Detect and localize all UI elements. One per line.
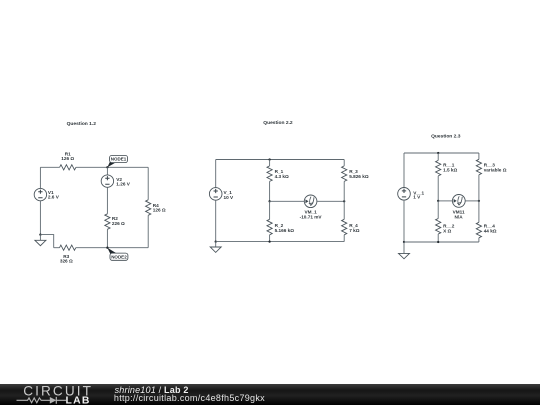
- CircuitLab wordmark CIRCUIT: [23, 383, 93, 398]
- junction NODE1: [106, 166, 108, 168]
- junction: [478, 200, 480, 202]
- junction: [403, 241, 405, 243]
- wire: [478, 238, 480, 242]
- voltage source V1: [34, 188, 46, 200]
- junction: [268, 158, 270, 160]
- wire: [343, 201, 345, 219]
- wire: [54, 247, 60, 249]
- resistor R__3: [476, 159, 481, 175]
- label R4 126 ohm: [153, 203, 166, 213]
- wire: [147, 167, 149, 200]
- label R_4 7 kohm: [349, 223, 360, 233]
- label V__1 1 V: [413, 190, 424, 199]
- voltage source V__1: [398, 188, 411, 201]
- wire: [343, 235, 345, 242]
- wire: [465, 200, 479, 202]
- value R1 126 ohm: [61, 156, 74, 161]
- title Question 2.2: [263, 120, 293, 126]
- node NODE2: [107, 248, 128, 261]
- wire: [76, 166, 148, 168]
- junction: [437, 241, 439, 243]
- label R3: [63, 254, 69, 259]
- label R_3 5.826 kohm: [349, 169, 369, 179]
- title Question 1.2: [67, 121, 97, 127]
- wire: [39, 201, 41, 235]
- logo resistor zigzag: [17, 398, 51, 403]
- resistor R_3: [342, 166, 347, 182]
- label VM11: [453, 210, 465, 215]
- ground: [35, 235, 46, 246]
- junction: [268, 200, 270, 202]
- value VM11 N/A: [455, 215, 464, 220]
- wire: [478, 153, 480, 159]
- wire: [76, 247, 148, 249]
- wire: [343, 160, 345, 166]
- resistor R1: [60, 165, 76, 170]
- svg-text:X Ω: X Ω: [443, 228, 451, 233]
- value R3 326 ohm: [60, 258, 73, 263]
- wire: [269, 235, 271, 242]
- svg-text:4.3 kΩ: 4.3 kΩ: [275, 174, 289, 179]
- wire: [215, 200, 217, 241]
- junction: [39, 233, 41, 235]
- label R1: [65, 151, 71, 156]
- logo diode: [50, 397, 66, 404]
- svg-text:10 V: 10 V: [224, 195, 235, 200]
- svg-text:1 V: 1 V: [413, 194, 421, 199]
- svg-text:NODE1: NODE1: [111, 157, 127, 162]
- junction: [437, 152, 439, 154]
- svg-text:126 Ω: 126 Ω: [61, 156, 74, 161]
- svg-text:1.26 V: 1.26 V: [116, 182, 130, 187]
- wire: [437, 201, 439, 219]
- wire: [404, 152, 479, 154]
- wire: [343, 181, 345, 201]
- svg-text:326 Ω: 326 Ω: [60, 258, 73, 263]
- voltage source V2: [101, 175, 113, 187]
- resistor R_4: [342, 219, 347, 235]
- svg-text:Question 1.2: Question 1.2: [67, 121, 97, 127]
- wire: [40, 166, 59, 168]
- resistor R__4: [476, 222, 481, 238]
- junction: [437, 200, 439, 202]
- resistor R4: [146, 200, 151, 216]
- svg-text:Question 2.2: Question 2.2: [263, 120, 293, 126]
- label R2 226 ohm: [112, 216, 125, 226]
- title Question 2.3: [431, 133, 461, 139]
- label R__1 1.5 kohm: [443, 163, 457, 173]
- wire: [403, 200, 405, 242]
- value VM_1 -10.71 mV: [300, 215, 323, 220]
- voltmeter VM11: [452, 195, 465, 208]
- logo LAB: [66, 395, 91, 405]
- wire: [269, 201, 271, 219]
- node NODE1: [107, 155, 127, 167]
- wire: [147, 215, 149, 247]
- junction NODE2: [106, 247, 108, 249]
- wire: [106, 188, 108, 214]
- resistor R2: [105, 214, 110, 230]
- wire: [215, 160, 217, 188]
- resistor R3: [60, 245, 76, 250]
- wire: [269, 181, 271, 201]
- svg-text:5.826 kΩ: 5.826 kΩ: [349, 174, 369, 179]
- wire: [40, 235, 53, 248]
- wire: [404, 241, 479, 243]
- svg-text:NODE2: NODE2: [111, 254, 127, 259]
- voltage source V_1: [209, 188, 222, 201]
- resistor R_2: [267, 219, 272, 235]
- label R__4 44 kohm: [484, 224, 497, 234]
- svg-text:126 Ω: 126 Ω: [153, 208, 166, 213]
- junction: [268, 240, 270, 242]
- voltmeter VM_1: [304, 195, 317, 208]
- svg-text:7 kΩ: 7 kΩ: [349, 228, 360, 233]
- wire: [438, 200, 452, 202]
- label R_1 4.3 kohm: [275, 169, 289, 179]
- label VM_1: [304, 209, 317, 214]
- label V1 2.6 V: [48, 190, 60, 199]
- svg-text:variable Ω: variable Ω: [484, 168, 507, 173]
- svg-text:Question 2.3: Question 2.3: [431, 133, 461, 139]
- svg-text:226 Ω: 226 Ω: [112, 221, 125, 226]
- svg-text:N/A: N/A: [455, 215, 464, 220]
- ground: [399, 242, 410, 259]
- svg-text:1.5 kΩ: 1.5 kΩ: [443, 168, 457, 173]
- wire: [478, 175, 480, 201]
- wire: [270, 200, 305, 202]
- wire: [437, 176, 439, 201]
- resistor R__2: [436, 219, 441, 235]
- svg-text:44 kΩ: 44 kΩ: [484, 228, 497, 233]
- svg-text:5.166 kΩ: 5.166 kΩ: [275, 228, 295, 233]
- junction: [215, 240, 217, 242]
- label V2 1.26 V: [116, 177, 130, 187]
- wire: [478, 201, 480, 222]
- label V_1 10 V: [224, 190, 235, 200]
- wire: [437, 234, 439, 242]
- label R_2 5.166 kohm: [275, 223, 295, 233]
- wire: [216, 241, 345, 243]
- svg-text:2.6 V: 2.6 V: [48, 194, 60, 199]
- wire: [437, 153, 439, 160]
- label R__2 X ohm: [443, 224, 455, 234]
- wire: [317, 200, 344, 202]
- resistor R__1: [436, 160, 441, 176]
- wire: [106, 167, 108, 174]
- svg-text:-10.71 mV: -10.71 mV: [300, 215, 323, 220]
- wire: [216, 159, 345, 161]
- svg-text:LAB: LAB: [66, 395, 91, 405]
- wire: [106, 229, 108, 247]
- wire: [39, 167, 41, 188]
- resistor R_1: [267, 166, 272, 182]
- junction: [343, 200, 345, 202]
- wire: [403, 153, 405, 188]
- label R__3 variable ohm: [484, 163, 507, 173]
- ground: [210, 242, 221, 253]
- wire: [269, 160, 271, 166]
